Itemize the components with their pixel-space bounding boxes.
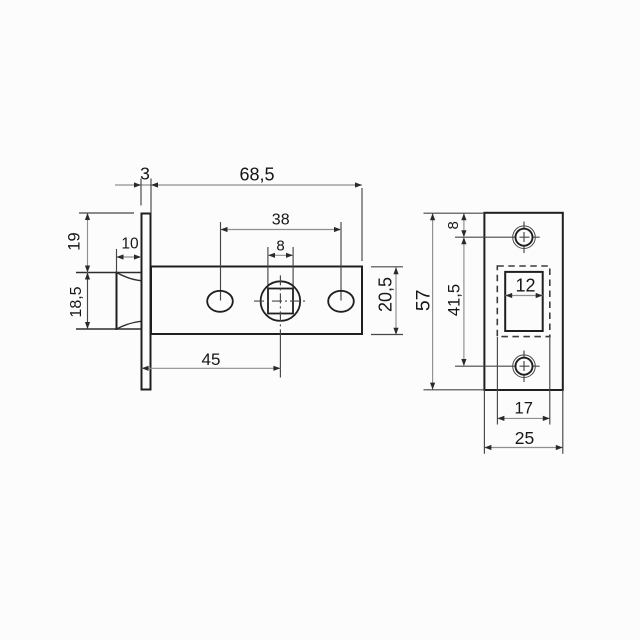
dim 12 right arrow [536, 293, 543, 298]
svg-text:57: 57 [413, 289, 435, 311]
dimension 18,5 line [87, 273, 89, 330]
latch bolt bottom edge / extension line [76, 328, 141, 330]
top screw hole outer circle [513, 226, 536, 249]
dim 19 top extension line [79, 212, 134, 214]
dimension 45 line [142, 367, 281, 369]
dim 17 left arrow [497, 416, 504, 421]
svg-text:38: 38 [272, 212, 290, 229]
top screw hole crosshair horizontal / 8-41,5 extension [455, 236, 540, 238]
dim 25 right arrow [556, 445, 563, 450]
dim 20,5 bottom arrow [393, 328, 398, 335]
dimension 8 line (spindle square) [268, 254, 293, 256]
dim 3 extension line right [150, 179, 152, 214]
dim 38 right arrow [334, 227, 341, 232]
dim 41,5 bottom arrow [461, 359, 466, 366]
dim 8 (right view) line [463, 213, 465, 237]
dim 38 left arrow [221, 227, 228, 232]
dim 17 right extension line [549, 337, 551, 425]
spindle circle [261, 281, 301, 321]
dim 25 left extension line [483, 390, 485, 454]
vertical centerline extension below body (45 dim) [279, 334, 281, 378]
extension line square left side for 8 dim [267, 247, 269, 289]
dim 3 left arrow [134, 182, 141, 187]
svg-text:3: 3 [140, 164, 150, 184]
dim 3 / 68,5 left arrow [151, 182, 158, 187]
dimension 3 / 68,5 shared line [115, 184, 362, 186]
dim 45 right arrow [273, 366, 280, 371]
bottom screw hole inner circle [516, 358, 533, 375]
dim 20,5 top extension line [371, 266, 403, 268]
dim 12 line [505, 295, 543, 297]
latch body rectangle [151, 267, 362, 335]
svg-text:25: 25 [515, 428, 534, 448]
dimension 38 line [221, 229, 342, 231]
dimension 19 line [87, 213, 89, 273]
dim 20,5 bottom extension line [371, 334, 403, 336]
dim 57 top arrow [430, 213, 435, 220]
dim 10 right arrow [134, 254, 141, 259]
dim 25 left arrow [484, 445, 491, 450]
spindle square hole [268, 289, 293, 314]
svg-text:41,5: 41,5 [446, 284, 464, 316]
extension line from right hole up to 38 dim [340, 222, 342, 301]
dim 8 left arrow [268, 253, 275, 258]
dim 25 right extension line [562, 390, 564, 454]
faceplate (side view) [142, 214, 151, 390]
right hole (oval) [328, 291, 354, 312]
dim 8 bottom arrow [461, 230, 466, 237]
svg-text:8: 8 [276, 238, 284, 255]
top screw hole crosshair vertical [523, 222, 525, 254]
dim 57 top extension line [424, 212, 485, 214]
svg-text:17: 17 [515, 400, 533, 418]
extension line square right side for 8 dim [292, 247, 294, 289]
dim 17 line [497, 417, 549, 419]
dimension 10 line [117, 256, 142, 258]
dim 18,5 top arrow [85, 273, 90, 280]
dim 19 top arrow [85, 213, 90, 220]
dim 25 line [484, 447, 562, 449]
dim 41,5 line [463, 237, 465, 366]
vertical centerline through spindle [279, 275, 281, 334]
dim 45 left arrow [142, 366, 149, 371]
dim 3 extension line left [140, 179, 142, 206]
dim 41,5 top arrow [461, 237, 466, 244]
svg-text:10: 10 [121, 236, 139, 253]
dim 68,5 right extension line [361, 188, 363, 261]
latch bolt bottom bevel curve [117, 321, 142, 329]
left hole (oval) [207, 291, 233, 312]
svg-text:68,5: 68,5 [239, 165, 274, 185]
dim 19 bottom arrow [85, 266, 90, 273]
svg-text:20,5: 20,5 [376, 277, 396, 312]
latch hole rectangle [505, 272, 543, 331]
svg-text:45: 45 [202, 350, 221, 369]
svg-text:19: 19 [65, 232, 83, 250]
dim 10 extension line [116, 249, 118, 273]
dashed latch opening zone [497, 266, 550, 337]
bottom screw hole outer circle [513, 355, 536, 378]
dim 57 line [432, 213, 434, 389]
dim 10 left arrow [117, 254, 124, 259]
dim 17 right arrow [543, 416, 550, 421]
latch bolt top edge / extension line [76, 272, 141, 274]
dim 68,5 right arrow [355, 182, 362, 187]
dim 8 right arrow [286, 253, 293, 258]
dim 57 bottom arrow [430, 383, 435, 390]
svg-text:18,5: 18,5 [68, 286, 85, 317]
top screw hole inner circle [516, 229, 533, 246]
latch bolt top bevel curve [117, 273, 142, 281]
bottom screw hole crosshair horizontal / 41,5 extension [455, 365, 540, 367]
dim 57 bottom extension line [424, 389, 485, 391]
horizontal centerline through spindle [254, 300, 307, 302]
svg-text:8: 8 [445, 221, 462, 229]
bottom screw hole crosshair vertical [523, 351, 525, 383]
svg-text:12: 12 [515, 276, 535, 296]
strike plate rectangle [484, 213, 562, 390]
dim 12 left arrow [505, 293, 512, 298]
dimension 20,5 line [395, 267, 397, 335]
extension line from left hole up to 38 dim [220, 222, 222, 301]
dim 8 top arrow [461, 213, 466, 220]
dim 20,5 top arrow [393, 267, 398, 274]
dim 18,5 bottom arrow [85, 322, 90, 329]
dim 17 left extension line [496, 337, 498, 425]
latch bolt left edge [116, 273, 118, 330]
